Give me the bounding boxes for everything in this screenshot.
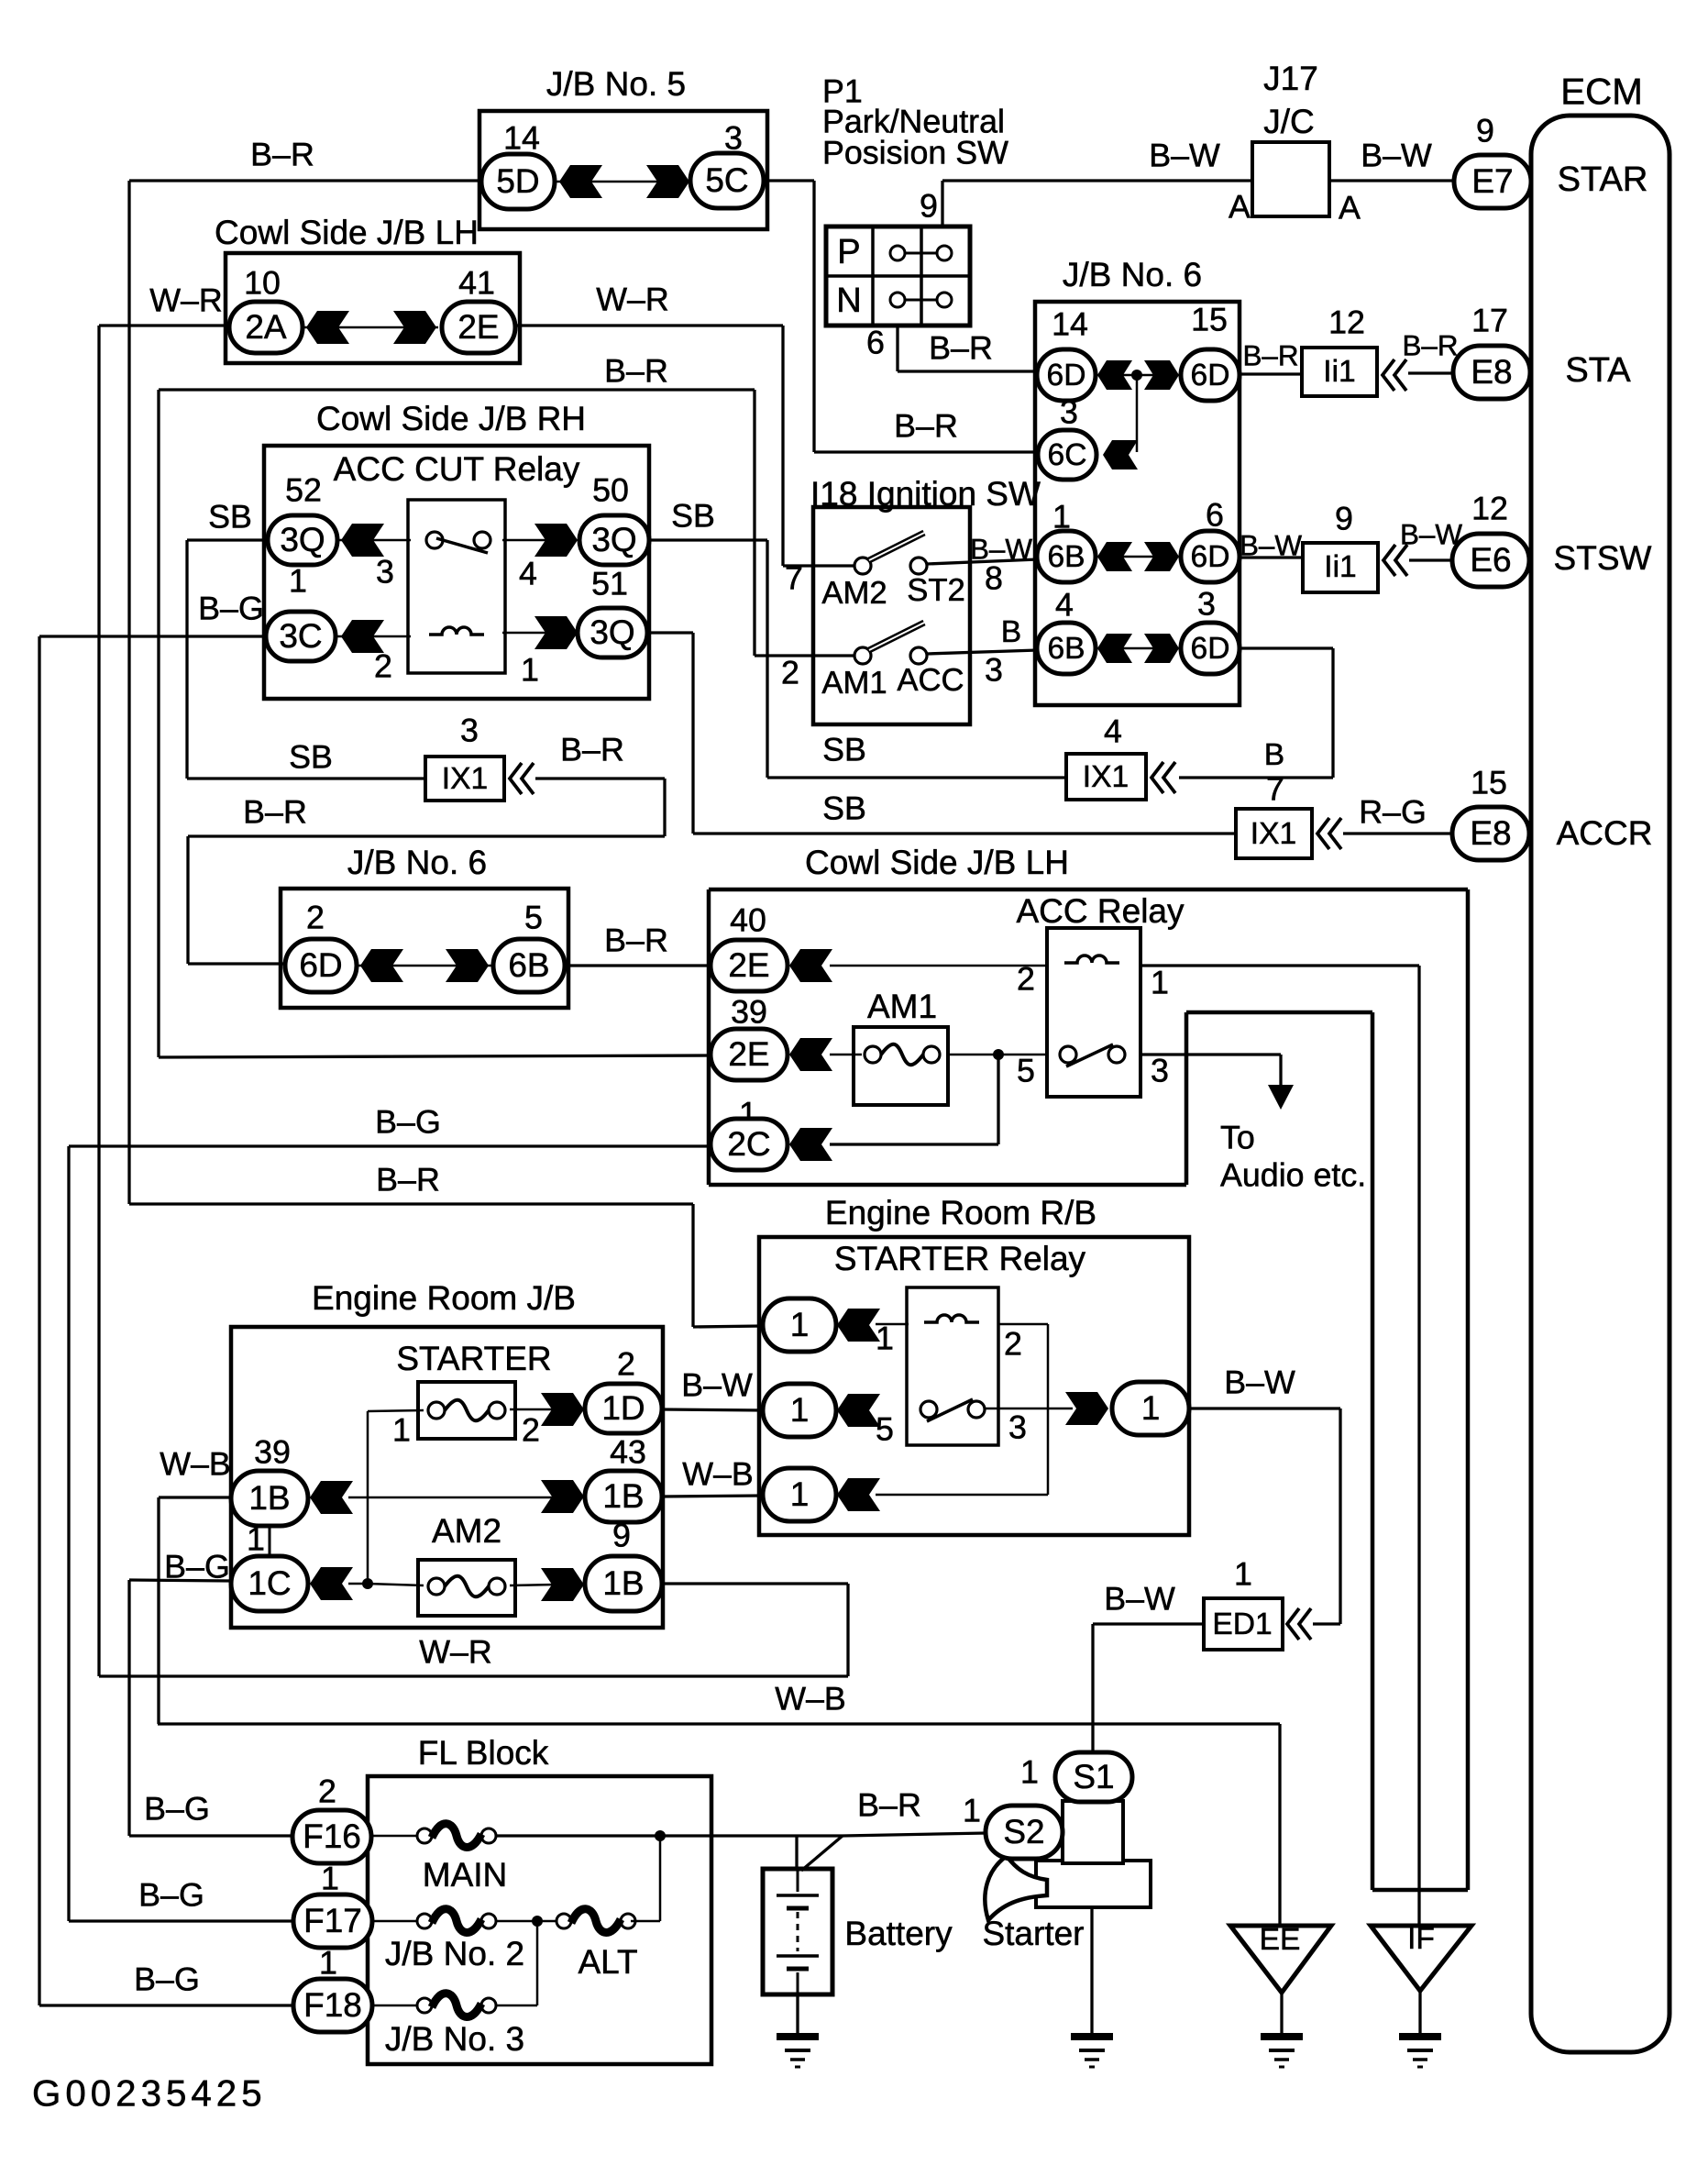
wire ACC to 6B(4) bbox=[927, 650, 1038, 654]
connector S1 bbox=[1055, 1752, 1132, 1802]
wire SB 3Q50 right bbox=[649, 538, 767, 541]
wire B-R from 5D to left rail bbox=[129, 179, 479, 182]
svg-text:5D: 5D bbox=[496, 162, 539, 200]
svg-text:N: N bbox=[836, 282, 862, 320]
arrow into 3C bbox=[341, 620, 384, 653]
svg-text:43: 43 bbox=[610, 1433, 646, 1470]
arrow toward 1D bbox=[541, 1393, 584, 1426]
wire B-G 3C to left rail bbox=[39, 635, 266, 637]
connector 1 (output) bbox=[1112, 1382, 1189, 1435]
svg-text:B–W: B–W bbox=[970, 533, 1032, 565]
svg-text:Battery: Battery bbox=[844, 1915, 953, 1952]
junction block Cowl Side J/B LH outline top bbox=[709, 888, 1468, 892]
arrow into 2E(40) bbox=[789, 949, 832, 982]
wire R-G IX1(7) to E8 ACCR bbox=[1343, 832, 1452, 834]
wire B x1454 down bbox=[1331, 648, 1334, 778]
wire 2E39 to AM1 fuse bbox=[830, 1054, 862, 1056]
svg-text:5: 5 bbox=[1017, 1052, 1035, 1088]
wire battery drop bbox=[795, 1836, 798, 1871]
double chevron IX1(7) bbox=[1317, 818, 1329, 849]
wire B-G to F17 bbox=[69, 1919, 293, 1922]
connector 6B (5) bbox=[493, 939, 565, 992]
connector 2E (40) bbox=[711, 940, 788, 991]
wire starter to ground bbox=[1090, 1907, 1093, 2035]
svg-text:4: 4 bbox=[1055, 586, 1074, 623]
svg-text:W–R: W–R bbox=[419, 1633, 492, 1670]
wire 3C to coil bbox=[337, 635, 411, 638]
wire riser to main bbox=[659, 1836, 662, 1921]
wire F17 to fuse bbox=[372, 1920, 417, 1923]
svg-text:3: 3 bbox=[460, 712, 479, 748]
connector F16 bbox=[292, 1810, 371, 1863]
svg-text:39: 39 bbox=[254, 1433, 291, 1470]
svg-text:AM1: AM1 bbox=[867, 988, 937, 1025]
connector 2E (41) bbox=[442, 302, 515, 353]
svg-text:STARTER: STARTER bbox=[396, 1340, 551, 1377]
svg-text:2E: 2E bbox=[728, 1035, 769, 1073]
wire B-W J17 to E7 bbox=[1329, 179, 1454, 182]
svg-text:B–R: B–R bbox=[250, 136, 314, 172]
svg-text:ALT: ALT bbox=[578, 1943, 637, 1981]
relay element box (ACC CUT) bbox=[408, 500, 505, 673]
svg-text:B–W: B–W bbox=[1240, 529, 1302, 561]
double chevron li1(12) bbox=[1383, 359, 1394, 391]
svg-text:STA: STA bbox=[1565, 351, 1631, 390]
svg-text:40: 40 bbox=[730, 901, 766, 938]
svg-text:Audio etc.: Audio etc. bbox=[1220, 1156, 1366, 1193]
connector 2E (39) bbox=[711, 1029, 788, 1080]
svg-text:4: 4 bbox=[519, 555, 537, 591]
svg-text:B–W: B–W bbox=[1361, 137, 1432, 173]
wire jb3 right bbox=[496, 2005, 537, 2007]
label To Audio etc. bbox=[1220, 1119, 1366, 1193]
svg-text:AM2: AM2 bbox=[821, 576, 887, 611]
wire 6C stub from dot bbox=[1136, 375, 1139, 452]
svg-text:1B: 1B bbox=[248, 1479, 290, 1517]
svg-text:E8: E8 bbox=[1470, 814, 1511, 852]
svg-text:J/B No. 6: J/B No. 6 bbox=[347, 844, 487, 881]
svg-text:3Q: 3Q bbox=[591, 521, 636, 558]
svg-text:W–B: W–B bbox=[775, 1680, 846, 1717]
svg-text:ACCR: ACCR bbox=[1557, 814, 1653, 852]
arrow toward 6D(6) bbox=[1144, 542, 1179, 571]
wire B-G to F16 bbox=[129, 1834, 293, 1837]
connector 1 (B-W in) bbox=[763, 1384, 836, 1437]
wire 6D3 right bbox=[1240, 646, 1333, 649]
svg-text:Engine Room J/B: Engine Room J/B bbox=[312, 1279, 576, 1317]
wire B-R back left bbox=[188, 834, 665, 837]
arrow toward 6D(3) bbox=[1144, 634, 1179, 663]
wire junction up bbox=[367, 1411, 369, 1584]
fuse AM2 box bbox=[418, 1560, 515, 1616]
svg-text:B–G: B–G bbox=[144, 1790, 210, 1827]
wire li1 to E6 bbox=[1409, 558, 1452, 561]
P/N divider h bbox=[826, 274, 970, 278]
connector F18 bbox=[293, 1979, 372, 2032]
connector IX1 (7) box bbox=[1236, 809, 1312, 858]
fuse ALT element bbox=[556, 1914, 571, 1928]
svg-text:41: 41 bbox=[458, 264, 495, 301]
wire 1C to junction bbox=[348, 1583, 367, 1585]
svg-text:Ii1: Ii1 bbox=[1323, 355, 1355, 389]
svg-text:2E: 2E bbox=[728, 946, 769, 984]
wire contact to 3Q50 bbox=[502, 539, 559, 542]
arrow into 3Q52 bbox=[341, 524, 384, 557]
connector 6B (1) bbox=[1037, 531, 1096, 582]
svg-text:Cowl Side J/B LH: Cowl Side J/B LH bbox=[215, 214, 479, 251]
wire ALT to riser bbox=[631, 1920, 660, 1923]
connector 6C bbox=[1038, 430, 1096, 480]
svg-text:R–G: R–G bbox=[1359, 793, 1427, 830]
svg-text:1D: 1D bbox=[601, 1389, 645, 1427]
wire W-R from 2E41 to AM2 drop bbox=[515, 324, 783, 326]
svg-text:B–R: B–R bbox=[1242, 339, 1298, 371]
wire 1B39 internal bbox=[348, 1497, 557, 1499]
wire AM2 fuse to 1B9 bbox=[510, 1585, 556, 1585]
relay element box (starter) bbox=[907, 1287, 998, 1445]
connector 6D (6) bbox=[1181, 531, 1240, 582]
svg-text:AM1: AM1 bbox=[821, 666, 887, 701]
svg-text:Cowl Side J/B RH: Cowl Side J/B RH bbox=[316, 400, 586, 437]
junction block Cowl Side J/B LH outline left bbox=[707, 889, 711, 1185]
wire B-R diagonal from battery bbox=[801, 1836, 843, 1871]
switch P1 Park/Neutral box bbox=[826, 226, 970, 326]
relay block Engine Room R/B box bbox=[759, 1237, 1189, 1535]
wire 2E40 to ACC relay coil bbox=[830, 965, 1047, 967]
wire x1462 down to ED1 bbox=[1339, 1408, 1341, 1624]
wire B-R into 6D(2) bbox=[188, 962, 286, 965]
wire AM1 fuse to relay bbox=[948, 1054, 1047, 1056]
svg-text:2: 2 bbox=[1017, 960, 1035, 997]
To-Audio branch right leg down bbox=[1371, 1012, 1375, 1890]
svg-text:SB: SB bbox=[671, 497, 715, 534]
svg-text:SB: SB bbox=[289, 738, 333, 775]
svg-text:4: 4 bbox=[1104, 712, 1122, 749]
svg-text:1: 1 bbox=[876, 1320, 894, 1356]
svg-text:STAR: STAR bbox=[1558, 160, 1648, 199]
fuse STARTER element bbox=[428, 1402, 445, 1419]
junction dot main-alt bbox=[655, 1830, 666, 1841]
double chevron IX1(3) bbox=[510, 763, 522, 794]
junction dot 1C bbox=[362, 1578, 373, 1589]
arrow toward 6B(5) bbox=[446, 949, 489, 982]
ECM box bbox=[1531, 116, 1669, 2052]
fuse MAIN element bbox=[417, 1828, 432, 1843]
double chevron ED1 bbox=[1287, 1608, 1299, 1640]
svg-text:3: 3 bbox=[1060, 393, 1078, 430]
connector 3C bbox=[266, 612, 336, 661]
arrow toward output 1 bbox=[1065, 1392, 1108, 1425]
P/N divider v2 bbox=[920, 226, 923, 326]
svg-text:2: 2 bbox=[522, 1411, 540, 1448]
svg-text:7: 7 bbox=[785, 559, 803, 596]
wire S1 up bbox=[1091, 1624, 1094, 1752]
arrow To Audio bbox=[1268, 1085, 1294, 1110]
left rail B-G x141b (1C to F16) bbox=[127, 1580, 130, 1836]
svg-text:ACC: ACC bbox=[897, 663, 964, 698]
svg-text:ACC CUT Relay: ACC CUT Relay bbox=[334, 450, 580, 488]
svg-text:F17: F17 bbox=[303, 1902, 362, 1939]
contact switch (ACC CUT relay) bbox=[426, 532, 443, 548]
svg-text:1: 1 bbox=[790, 1475, 810, 1513]
starter hook bbox=[985, 1856, 1047, 1920]
svg-text:ACC Relay: ACC Relay bbox=[1017, 892, 1185, 930]
svg-text:B–G: B–G bbox=[375, 1103, 441, 1140]
wire 5C to corner bbox=[764, 179, 814, 182]
svg-text:3: 3 bbox=[376, 553, 394, 590]
svg-text:B: B bbox=[1001, 615, 1021, 649]
svg-text:B: B bbox=[1264, 738, 1284, 772]
ground (starter) bbox=[1071, 2033, 1113, 2040]
connector 1C bbox=[231, 1556, 308, 1611]
junction block Engine Room J/B box bbox=[231, 1327, 663, 1628]
svg-text:2: 2 bbox=[1004, 1325, 1022, 1362]
svg-text:SB: SB bbox=[208, 498, 252, 535]
svg-text:SB: SB bbox=[822, 731, 866, 768]
svg-text:52: 52 bbox=[285, 471, 322, 508]
svg-text:6: 6 bbox=[866, 324, 885, 360]
svg-text:B–W: B–W bbox=[681, 1366, 753, 1403]
left rail W-R x108 (2A to 1B9) bbox=[97, 326, 100, 1676]
connector 6D (15) bbox=[1181, 349, 1240, 401]
svg-text:B–R: B–R bbox=[376, 1161, 440, 1198]
connector 1B (43) bbox=[585, 1471, 662, 1522]
arrow into 5D bbox=[559, 165, 602, 198]
link 1B39-1C bbox=[269, 1526, 271, 1557]
connector 6D (2) bbox=[285, 939, 357, 992]
connector 3Q (51) bbox=[578, 608, 647, 657]
wire SB x204 down bbox=[185, 540, 188, 779]
wire W-R drop to AM2 pin7 bbox=[781, 326, 784, 566]
svg-text:FL Block: FL Block bbox=[418, 1734, 549, 1772]
wire B-R vertical x888 bbox=[812, 181, 815, 452]
svg-text:ST2: ST2 bbox=[907, 573, 965, 608]
svg-text:9: 9 bbox=[1335, 500, 1353, 536]
svg-text:STSW: STSW bbox=[1554, 539, 1652, 577]
wire 1B39 to left rail bbox=[159, 1496, 231, 1498]
fuse AM1 element bbox=[865, 1046, 881, 1063]
junction dot AM1 out bbox=[993, 1049, 1004, 1060]
svg-text:B–R: B–R bbox=[857, 1786, 921, 1823]
wire B-G 2C to left rail bbox=[69, 1144, 711, 1147]
svg-text:3: 3 bbox=[1151, 1052, 1169, 1088]
junction dot jb2-alt bbox=[532, 1916, 543, 1927]
svg-text:9: 9 bbox=[1476, 112, 1494, 149]
connector E6 bbox=[1452, 534, 1529, 587]
svg-text:14: 14 bbox=[1052, 305, 1088, 342]
svg-text:1: 1 bbox=[392, 1411, 411, 1448]
svg-text:IX1: IX1 bbox=[1251, 817, 1296, 851]
wire 3Q52 to relay contact bbox=[337, 539, 411, 542]
arrow into 6D(14) bbox=[1097, 360, 1132, 390]
wire into ED1 chevron bbox=[1313, 1622, 1340, 1625]
wire 1D to relay bbox=[662, 1409, 763, 1410]
svg-text:7: 7 bbox=[1266, 770, 1284, 807]
relay coil (ACC relay) bbox=[1064, 955, 1119, 963]
svg-text:G00235425: G00235425 bbox=[32, 2073, 267, 2115]
wire jb2 to ALT fuse bbox=[496, 1920, 561, 1923]
svg-text:15: 15 bbox=[1471, 764, 1507, 801]
svg-text:2: 2 bbox=[617, 1345, 635, 1382]
arrow into 2C bbox=[789, 1128, 832, 1161]
wire row1 bbox=[1095, 374, 1181, 377]
wire EE to ground bbox=[1280, 1993, 1283, 2035]
wire between 2A and 2E bbox=[303, 326, 438, 329]
connector 3Q (50) bbox=[579, 515, 649, 565]
contact switch (starter relay) bbox=[920, 1401, 937, 1418]
relay coil (starter relay) bbox=[924, 1315, 979, 1322]
svg-text:1: 1 bbox=[790, 1391, 810, 1429]
wire coil to 3Q51 bbox=[502, 632, 559, 635]
wire MAIN to battery bbox=[496, 1834, 843, 1837]
wire SB 3Q51 right bbox=[647, 631, 693, 634]
svg-text:6C: 6C bbox=[1048, 438, 1087, 472]
connector E8 (ACCR) bbox=[1452, 807, 1529, 860]
wire row2 bbox=[1095, 556, 1181, 558]
svg-text:2E: 2E bbox=[457, 308, 499, 346]
svg-text:9: 9 bbox=[612, 1517, 631, 1553]
starter motor body bbox=[1036, 1861, 1151, 1907]
svg-text:3: 3 bbox=[1197, 585, 1216, 622]
svg-text:Ii1: Ii1 bbox=[1324, 550, 1356, 584]
wire B-R into relay 1 bbox=[693, 1326, 763, 1327]
svg-text:17: 17 bbox=[1471, 302, 1508, 338]
left rail B-G x75 (2C to F17) bbox=[67, 1146, 70, 1921]
wire into AM1 pin 2 bbox=[755, 654, 863, 657]
junction block Cowl Side J/B LH (upper) box bbox=[226, 253, 520, 363]
svg-text:1: 1 bbox=[1234, 1555, 1252, 1592]
wire between 5D and 5C bbox=[555, 181, 693, 183]
switch I18 Ignition SW box bbox=[813, 507, 970, 724]
svg-text:6D: 6D bbox=[299, 946, 342, 984]
fuse J/B No.2 element bbox=[417, 1914, 432, 1928]
wire To-Audio drop bbox=[1279, 1055, 1282, 1085]
arrow into 2A bbox=[306, 311, 349, 344]
connector li1 (9) box bbox=[1303, 543, 1378, 592]
double chevron IX1(4) bbox=[1152, 762, 1163, 793]
svg-text:39: 39 bbox=[731, 993, 767, 1030]
arrow into relay 1 (top) bbox=[837, 1309, 880, 1342]
svg-text:10: 10 bbox=[244, 264, 281, 301]
svg-text:Engine Room R/B: Engine Room R/B bbox=[825, 1194, 1096, 1232]
svg-text:2: 2 bbox=[781, 654, 799, 690]
wire chevron to coil bbox=[876, 1323, 909, 1326]
ground (EE) bbox=[1261, 2033, 1303, 2040]
svg-text:SB: SB bbox=[822, 790, 866, 826]
wire SB x756 down bbox=[691, 633, 694, 834]
svg-text:S1: S1 bbox=[1073, 1758, 1114, 1795]
wire ST2 to 6B(1) bbox=[927, 559, 1038, 564]
wire SB to IX1(3) bbox=[187, 777, 425, 779]
svg-text:B–R: B–R bbox=[604, 352, 668, 389]
wire P/N pin6 down bbox=[896, 326, 898, 371]
connector 5D bbox=[481, 154, 555, 209]
junction connector J17 J/C box bbox=[1252, 142, 1329, 216]
N row contacts bbox=[890, 293, 952, 307]
connector 1B (9) bbox=[585, 1556, 662, 1611]
svg-text:6B: 6B bbox=[1047, 540, 1085, 574]
connector 6B (4) bbox=[1037, 623, 1096, 674]
svg-text:6D: 6D bbox=[1047, 359, 1086, 392]
arrow into relay 1 (bottom) bbox=[837, 1478, 880, 1511]
svg-text:14: 14 bbox=[503, 119, 540, 156]
svg-text:E8: E8 bbox=[1471, 353, 1512, 391]
wire B-R to starter relay 1 bbox=[129, 1202, 693, 1205]
battery plates bbox=[777, 1871, 819, 1994]
svg-text:50: 50 bbox=[592, 471, 629, 508]
wire B-R/W-B corner to AM1 - horizontal bbox=[159, 388, 755, 391]
svg-text:1: 1 bbox=[321, 1860, 339, 1896]
connector 1 (W-B in) bbox=[763, 1468, 836, 1521]
connector IX1 (3) box bbox=[425, 757, 504, 801]
wire ACC relay pin1 right bbox=[1141, 964, 1419, 967]
svg-text:12: 12 bbox=[1328, 304, 1365, 340]
connector ED1 box bbox=[1204, 1598, 1283, 1650]
wire x1548 down to IF bbox=[1417, 966, 1420, 1926]
junction block J/B No.5 box bbox=[479, 111, 767, 229]
double chevron li1(9) bbox=[1383, 545, 1395, 576]
svg-text:B–G: B–G bbox=[198, 590, 264, 626]
wire junction to STARTER fuse bbox=[368, 1410, 424, 1411]
wire ACC relay pin3 right bbox=[1141, 1053, 1281, 1055]
svg-text:2: 2 bbox=[318, 1773, 336, 1809]
connector E7 bbox=[1454, 155, 1531, 208]
svg-text:1: 1 bbox=[521, 651, 539, 688]
P row contacts bbox=[890, 246, 952, 260]
svg-text:B–W: B–W bbox=[1104, 1580, 1175, 1617]
svg-text:6D: 6D bbox=[1191, 359, 1230, 392]
arrow toward 3Q51 bbox=[534, 616, 578, 649]
svg-text:B–R: B–R bbox=[243, 793, 307, 830]
wire 1B9 right bbox=[662, 1582, 848, 1585]
svg-text:2A: 2A bbox=[245, 308, 287, 346]
wire to W-B 1 connector bbox=[876, 1494, 1048, 1497]
connector 6D (14) bbox=[1037, 349, 1096, 401]
wire W-B long bbox=[158, 1722, 1280, 1725]
arrow into relay 1 (middle) bbox=[837, 1394, 880, 1427]
connector 5C bbox=[690, 153, 764, 208]
svg-text:B–R: B–R bbox=[1402, 329, 1458, 361]
connector 1D bbox=[585, 1384, 662, 1433]
arrow into 6C bbox=[1103, 440, 1138, 469]
wire W-B x173 down bbox=[157, 1497, 160, 1724]
svg-text:6D: 6D bbox=[1191, 540, 1230, 574]
arrow into 1C bbox=[310, 1567, 353, 1600]
svg-text:9: 9 bbox=[920, 187, 938, 224]
wire B-R pin6 to 6D(14) bbox=[898, 370, 1039, 372]
wire junction to AM2 fuse bbox=[368, 1584, 424, 1585]
svg-text:5: 5 bbox=[876, 1410, 894, 1447]
svg-text:J/B No. 3: J/B No. 3 bbox=[385, 2020, 524, 2058]
svg-text:Cowl Side J/B LH: Cowl Side J/B LH bbox=[805, 844, 1069, 881]
ground triangle EE bbox=[1230, 1926, 1331, 1993]
arrow into 6D(2) bbox=[360, 949, 403, 982]
svg-text:W–R: W–R bbox=[596, 281, 669, 317]
wire F16 to MAIN fuse bbox=[371, 1835, 417, 1838]
junction block J/B No.6 (upper) box bbox=[1035, 302, 1240, 705]
svg-text:6B: 6B bbox=[1047, 632, 1085, 666]
wire SB to IX1(7) bbox=[693, 832, 1236, 834]
svg-text:S2: S2 bbox=[1003, 1813, 1044, 1850]
connector 1 (relay coil in) bbox=[763, 1298, 836, 1352]
wire STARTER fuse to 1D bbox=[510, 1408, 556, 1411]
arrow toward 1B(43) bbox=[541, 1480, 584, 1513]
wire x173 down to 2E39 row bbox=[157, 390, 160, 1057]
wire 6D2-6B5 bbox=[358, 965, 491, 967]
svg-text:B–R: B–R bbox=[929, 329, 993, 366]
svg-text:6: 6 bbox=[1206, 496, 1224, 533]
relay coil (ACC CUT) bbox=[429, 627, 484, 635]
